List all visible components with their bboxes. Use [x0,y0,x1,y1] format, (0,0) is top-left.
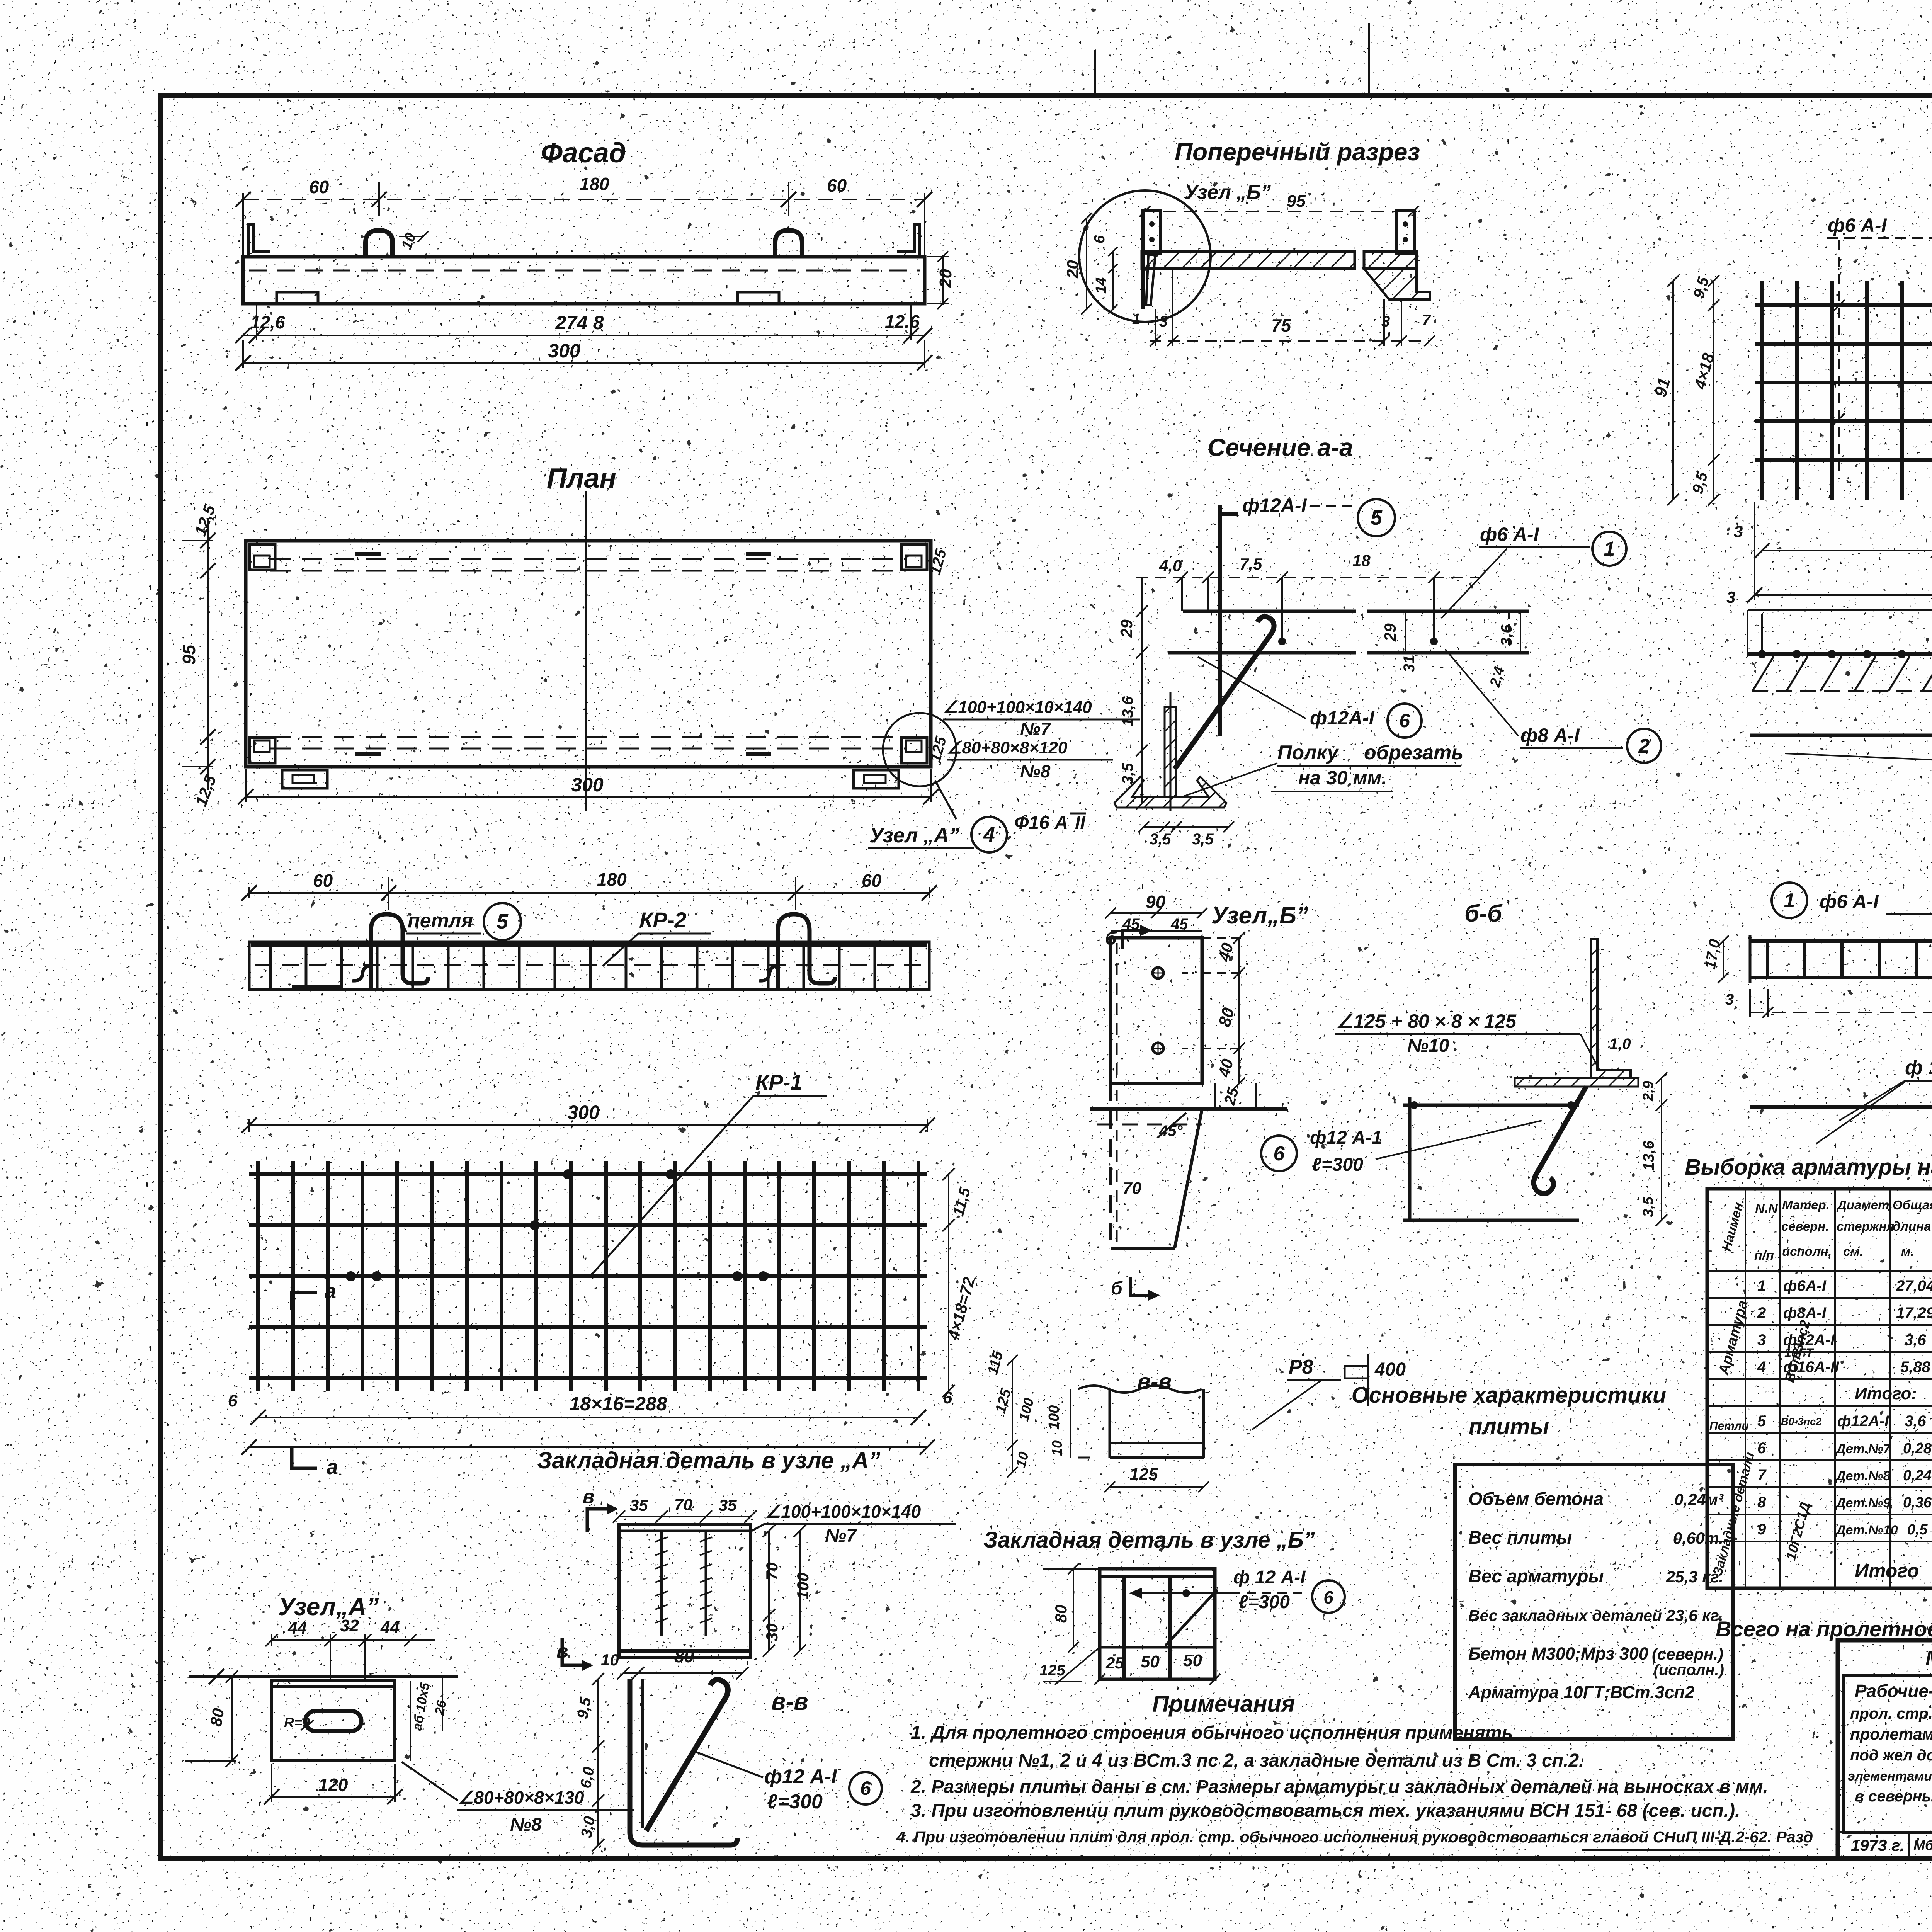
svg-text:ф8 А-I: ф8 А-I [1520,724,1580,746]
svg-text:12.6: 12.6 [885,311,920,332]
svg-text:100: 100 [1046,1405,1062,1430]
title block left: work drawings description [1838,1676,1932,1858]
v-v left dim chain 9.5/6.0/3.0 [574,1673,604,1851]
svg-text:ф12 А-1: ф12 А-1 [1310,1128,1382,1148]
uzel B section marker b bottom [1111,1277,1160,1301]
svg-text:6: 6 [860,1777,871,1799]
svg-text:300: 300 [548,340,580,362]
KR-1 left dim chain 9.5/91/4x18/9.5 [1651,275,1719,505]
svg-text:12,6: 12,6 [250,312,285,332]
svg-text:Объем бетона: Объем бетона [1468,1488,1604,1509]
svg-text:Диамет.: Диамет. [1836,1198,1893,1212]
label petlya with callout 5 [403,903,521,940]
uzel B callout circle [1079,190,1211,322]
detail A dims 35/70/35 [613,1495,757,1523]
label f12A-I callout 5 [1242,495,1395,536]
label KR-1 with leader [591,1070,827,1275]
facade embedded plate left [277,292,318,304]
sechenie vertical bar 5 [1220,505,1238,736]
svg-text:(северн.): (северн.) [1652,1645,1723,1663]
title: Osnovnye kharakteristiki plity [1352,1383,1667,1439]
svg-text:120: 120 [318,1775,348,1795]
title: v-v small [1137,1369,1172,1394]
KR-2 label f6A-I callout 1 left [1772,883,1932,949]
svg-text:Узел: Узел [869,824,918,847]
label f8A-I callout 2 [1445,649,1661,763]
note polku obrezat [1182,742,1463,797]
svg-text:б: б [1111,1278,1123,1299]
sechenie top dim 4.0/7.5/18 [1136,551,1488,641]
v-v broken plate view [1046,1386,1209,1492]
svg-text:Закладная деталь в узле „Б”: Закладная деталь в узле „Б” [983,1527,1315,1553]
KR-1 label f6A-I callout 1 [1827,214,1932,479]
svg-text:в: в [556,1640,568,1662]
svg-text:Вес закладных деталей: Вес закладных деталей [1468,1607,1662,1624]
svg-text:в-в: в-в [771,1689,808,1715]
svg-text:ℓ=300: ℓ=300 [1238,1592,1290,1612]
plan section cut line a-a vertical [585,491,587,811]
svg-text:90: 90 [1146,892,1166,912]
svg-text:ф6 А-I: ф6 А-I [1828,214,1887,236]
svg-text:обрезать: обрезать [1364,742,1463,764]
detail A plate with anchors [619,1524,750,1658]
svg-text:„А”: „А” [923,824,959,847]
svg-text:3: 3 [1725,991,1734,1008]
svg-text:35: 35 [630,1496,648,1514]
svg-text:7,5: 7,5 [1240,555,1262,573]
svg-text:6: 6 [1092,235,1108,243]
svg-text:3,5: 3,5 [1150,831,1171,848]
svg-text:2. Размеры плиты даны в см.: 2. Размеры плиты даны в см. Размеры арма… [910,1777,1768,1797]
svg-text:3,6: 3,6 [1905,1413,1926,1430]
svg-text:95: 95 [179,644,199,665]
svg-text:125: 125 [1129,1465,1158,1484]
view title: Sechenie a-a [1207,434,1353,461]
svg-text:2,9: 2,9 [1640,1081,1656,1102]
plan hidden dashed lines bottom [270,737,906,748]
transverse left dims 20/14/6 [1063,213,1117,315]
characteristics box [1455,1464,1733,1739]
svg-text:Узел: Узел [278,1593,336,1621]
title: v-v section [771,1689,808,1715]
svg-text:№10: №10 [1407,1036,1449,1056]
uzel B plan plate [1111,938,1202,1083]
sechenie label f12A-I callout 6 [1198,657,1422,738]
zakladnaya B plate [1100,1569,1215,1679]
plan outside plate bottom-right [854,770,899,788]
label: Uzel B small [1184,181,1271,204]
svg-text:№8: №8 [510,1815,542,1835]
svg-text:32: 32 [340,1616,359,1635]
svg-text:100: 100 [794,1573,812,1600]
svg-text:5: 5 [497,910,509,933]
svg-text:Ф16 А: Ф16 А [1014,813,1068,833]
svg-text:∠100+100×10×140: ∠100+100×10×140 [943,698,1092,717]
svg-text:10: 10 [1049,1440,1065,1456]
svg-text:Полку: Полку [1277,742,1340,764]
svg-text:∠80+80×8×130: ∠80+80×8×130 [458,1787,584,1808]
v-v label f12 A-I l=300 callout 6 [692,1750,882,1813]
svg-text:Выборка арматуры на 1 плиту: Выборка арматуры на 1 плиту [1685,1155,1932,1180]
b-b rebar frame with hook [1403,1087,1586,1221]
svg-text:3: 3 [1726,588,1735,606]
svg-text:Дет.№7: Дет.№7 [1835,1442,1891,1456]
svg-text:3: 3 [1757,1332,1766,1349]
label R8 400 [1252,1354,1406,1430]
svg-text:13,6: 13,6 [1640,1140,1657,1171]
svg-text:6: 6 [1274,1143,1285,1165]
sechenie bottom dims 3.5 3.5 [1138,821,1234,848]
KR-1 mesh grid [1755,281,1932,500]
svg-text:4. При изготовлении плит для: 4. При изготовлении плит для прол. стр. … [896,1828,1813,1846]
uzel A slab reference line [189,1669,458,1684]
facade top dimension line 60/180/60 [235,174,932,257]
svg-text:а: а [327,1456,338,1479]
mesh top dimension 300 [241,1102,935,1133]
svg-text:0,5: 0,5 [1907,1522,1928,1538]
strip view top dimension 60/180/60 [241,869,937,910]
svg-text:3: 3 [1159,313,1168,330]
svg-text:№8: №8 [1020,761,1051,781]
svg-text:Дет.№8: Дет.№8 [1835,1469,1891,1483]
svg-text:„Б”: „Б” [1267,902,1308,929]
svg-text:Фасад: Фасад [541,138,626,168]
uzel A top dims 44/32/44 [265,1616,435,1681]
svg-text:70: 70 [674,1495,692,1514]
svg-text:70: 70 [763,1562,781,1580]
svg-text:6: 6 [1323,1587,1333,1607]
view title: Poperechny razrez [1175,138,1420,166]
svg-text:∠100+100×10×140: ∠100+100×10×140 [765,1502,921,1522]
svg-text:2: 2 [1757,1304,1766,1321]
plan label angle N8 [947,738,1113,781]
svg-text:плиты: плиты [1469,1414,1549,1439]
svg-text:14: 14 [1093,277,1109,294]
svg-text:КР-1: КР-1 [755,1070,803,1094]
svg-text:5,88: 5,88 [1900,1359,1931,1376]
svg-text:10ГТ: 10ГТ [1784,1346,1814,1360]
svg-text:1. Для пролетного строения: 1. Для пролетного строения обычного испо… [911,1723,1513,1743]
svg-text:3,6: 3,6 [1905,1332,1926,1349]
mesh right dim chain 11.5 / 4x18=72 [942,1168,1007,1397]
svg-text:в северных районах: в северных районах [1855,1788,1932,1805]
svg-text:80: 80 [674,1646,694,1666]
facade lifting loop left [366,230,393,257]
scan speckle noise [0,0,0,0]
plan corner plate top-right [901,544,927,570]
mesh section marker a bottom [292,1447,338,1479]
svg-text:Итого:: Итого: [1855,1384,1917,1403]
svg-text:50: 50 [1183,1651,1202,1670]
detail A label angle 100x100x10x140 N7 [752,1502,956,1546]
svg-text:95: 95 [1287,192,1306,211]
title: Uzel A [278,1593,379,1621]
zakladnaya B dims 25/50/50 and 80/125 [1039,1563,1220,1685]
svg-text:1: 1 [1604,538,1615,560]
svg-text:ф12А-I: ф12А-I [1837,1413,1889,1430]
svg-text:3,5: 3,5 [1640,1196,1656,1217]
KR-1 bottom dim 18x16=288 / 294 [1734,502,1932,603]
transverse dim 95 top [1139,192,1419,217]
svg-text:125: 125 [1039,1662,1065,1679]
svg-text:20: 20 [1063,260,1082,279]
svg-text:9: 9 [1757,1521,1766,1538]
right small dim chain 125/100/10 [992,1355,1037,1478]
KR-2 ladder strip [1750,935,1932,983]
svg-text:4,0: 4,0 [1159,556,1182,575]
view title: Plan [547,463,616,494]
svg-text:элементами для использования: элементами для использования [1848,1769,1932,1784]
facade lifting loop right [775,230,802,257]
svg-text:„Б”: „Б” [1236,181,1271,204]
title block ministry banner [1925,1647,1932,1670]
svg-text:0,28: 0,28 [1903,1440,1932,1457]
svg-text:ф 12 А-I: ф 12 А-I [1233,1567,1306,1588]
KR-2 left dim 17.0 [1702,935,1729,983]
svg-text:80: 80 [1052,1605,1070,1623]
svg-text:80: 80 [207,1707,228,1728]
svg-text:1: 1 [1132,311,1140,327]
svg-text:5: 5 [1757,1413,1766,1430]
plan bottom dimension 300 [238,769,939,804]
svg-text:29: 29 [1117,619,1136,638]
svg-text:План: План [547,463,616,494]
svg-text:4: 4 [1757,1359,1766,1376]
KR-2 bottom dim 18x16 [1725,986,1932,1018]
transverse bottom dims 3/75/3/7 [1132,269,1435,346]
transverse section slab [1142,211,1430,309]
svg-text:Министерство транспортного с: Министерство транспортного строительство… [1925,1647,1932,1670]
plan label angle N7 [943,698,1140,739]
svg-text:II: II [1075,813,1086,833]
svg-text:Рабочие-чертежи: Рабочие-чертежи [1855,1681,1932,1701]
svg-text:ф6А-I: ф6А-I [1783,1277,1827,1294]
svg-text:Р8: Р8 [1289,1356,1313,1378]
svg-text:∠80+80×8×120: ∠80+80×8×120 [947,738,1068,757]
svg-text:10: 10 [601,1651,619,1669]
svg-text:№7: №7 [825,1526,857,1546]
svg-text:25: 25 [1105,1654,1124,1672]
title: Zakladnaya detal v uzle A [537,1447,880,1473]
label KR-2 on strip [603,908,711,966]
uzel A label angle 80x80x8x130 N8 [402,1762,634,1835]
svg-text:Дет.№10: Дет.№10 [1835,1523,1898,1537]
svg-text:в: в [583,1486,594,1507]
svg-text:5: 5 [1371,506,1383,529]
title: Primechaniya [1152,1691,1295,1717]
facade embedded plate right [738,292,779,304]
svg-text:2: 2 [1638,735,1650,757]
svg-text:ф 16 А- II ℓ=2940: ф 16 А- II ℓ=2940 [1905,1056,1932,1079]
svg-text:1973 г.: 1973 г. [1851,1836,1905,1854]
svg-text:26: 26 [432,1699,449,1716]
svg-text:180: 180 [597,869,627,889]
svg-text:3: 3 [1734,522,1743,541]
svg-text:В0-3пс2: В0-3пс2 [1781,1416,1821,1427]
facade dimension line 300 [235,340,932,371]
svg-text:исполн.: исполн. [1782,1244,1832,1259]
svg-text:180: 180 [580,174,609,194]
svg-text:в-в: в-в [1137,1369,1172,1394]
svg-text:7: 7 [1422,312,1431,329]
svg-text:0,60т.: 0,60т. [1673,1529,1723,1547]
KR-1 side elevation beam [1726,585,1932,658]
svg-text:274 8: 274 8 [555,312,604,333]
facade dimension line 12.6/274.8/12.6 [235,304,932,343]
title: Uzel B [1211,902,1308,929]
svg-text:20: 20 [936,269,955,288]
svg-text:4: 4 [983,823,995,846]
svg-text:Основные характеристики: Основные характеристики [1352,1383,1667,1408]
mesh bottom dimension 18x16=288 [228,1388,952,1455]
svg-text:400: 400 [1374,1359,1406,1380]
svg-text:60: 60 [313,871,333,891]
b-b right dim chain 2.9/13.6/3.5 [1640,1072,1667,1226]
view title: Fasad [541,138,626,168]
svg-text:Вес плиты: Вес плиты [1468,1527,1572,1548]
sechenie right dims 29/31/36/2.4 [1381,611,1520,689]
svg-text:27,04: 27,04 [1896,1277,1932,1294]
svg-text:0,24м³: 0,24м³ [1674,1490,1724,1509]
svg-text:3: 3 [1381,313,1390,330]
svg-text:длина: длина [1893,1219,1931,1233]
svg-text:ф6 А-I: ф6 А-I [1820,891,1879,912]
svg-text:44: 44 [287,1619,307,1638]
title block outer [1838,1640,1932,1858]
plan hidden dashed lines top [270,559,906,571]
uzel A bottom dim 120 [264,1764,403,1804]
facade slab body [243,225,925,304]
detail A right dims 70/100/30 [763,1525,812,1657]
svg-text:Итого: Итого [1855,1560,1919,1582]
svg-text:Примечания: Примечания [1152,1691,1295,1717]
svg-text:29: 29 [1381,623,1399,642]
svg-text:31: 31 [1401,655,1418,673]
svg-text:300: 300 [567,1102,600,1123]
svg-text:ф6 А-I: ф6 А-I [1480,524,1539,545]
svg-text:18: 18 [1352,551,1371,570]
svg-text:Всего на пролетное строение: Всего на пролетное строение плит ПУ-7 шт… [1716,1617,1932,1641]
svg-text:75: 75 [1271,315,1292,335]
svg-text:44: 44 [380,1618,400,1637]
svg-text:45: 45 [1170,916,1188,933]
svg-text:Дет.№9: Дет.№9 [1835,1496,1891,1510]
svg-text:R=9: R=9 [284,1714,310,1730]
plan outside plate bottom-left [282,770,327,788]
svg-text:прол. стр. с ездой понизу: прол. стр. с ездой понизу [1850,1705,1932,1722]
plan corner plate bottom-right [901,738,927,763]
svg-text:60: 60 [827,175,847,196]
svg-text:Сечение а-а: Сечение а-а [1207,434,1353,461]
svg-text:Вес арматуры: Вес арматуры [1468,1566,1604,1586]
KR-2 bottom bar line [1750,1082,1932,1144]
svg-text:∠125 + 80 × 8 × 125: ∠125 + 80 × 8 × 125 [1336,1010,1517,1032]
svg-text:Узел: Узел [1211,902,1267,929]
svg-text:50: 50 [1141,1652,1160,1671]
svg-text:Арматура 10ГТ;ВСт.3сп2: Арматура 10ГТ;ВСт.3сп2 [1468,1682,1694,1702]
svg-text:13,6: 13,6 [1119,696,1136,726]
detail A section marker v top [583,1486,618,1532]
KR-1 elevation hatch strokes [1752,656,1932,691]
svg-text:ф12 А-I: ф12 А-I [764,1765,837,1788]
table title: Vyborka armatury na 1 plitu [1685,1155,1932,1180]
b-b angle label 125x80x8x125 N10 [1335,1010,1600,1070]
caption: Vsego na proletnoye stroyeniye plit PU-7 sht [1716,1617,1932,1641]
svg-text:п/п: п/п [1754,1248,1774,1263]
svg-text:6: 6 [228,1391,238,1410]
zakladnaya B label f12A-I l=300 callout 6 [1129,1567,1345,1613]
svg-text:б-б: б-б [1464,900,1503,927]
KR-1 mesh grid [249,1161,927,1391]
svg-text:КР-2: КР-2 [639,908,687,932]
svg-text:Узел: Узел [1184,181,1231,204]
svg-text:17,29: 17,29 [1896,1304,1932,1321]
plan left dimension chain 12.5/95/12.5 [179,502,220,809]
svg-text:23,6 кг.: 23,6 кг. [1666,1606,1723,1624]
uzel B lower part with 45 deg cut [1090,1083,1287,1248]
svg-text:3,5: 3,5 [1119,763,1136,784]
svg-text:ф12А-I: ф12А-I [1242,495,1307,516]
svg-text:3. При изготовлении плит рук: 3. При изготовлении плит руководствовать… [911,1801,1740,1821]
title: Zakladnaya detal v uzle B [983,1527,1315,1553]
svg-text:№7: №7 [1020,719,1051,739]
svg-text:на 30 мм.: на 30 мм. [1298,767,1387,789]
notes text lines [896,1723,1813,1850]
svg-text:3,5: 3,5 [1192,831,1214,848]
plan slab outline [246,541,931,767]
svg-text:стержни №1, 2 и 4 из ВСт.3: стержни №1, 2 и 4 из ВСт.3 пс 2, а закла… [929,1750,1584,1771]
svg-text:ф8А-I: ф8А-I [1783,1304,1827,1321]
svg-text:1: 1 [1757,1277,1766,1294]
mesh spot welds dots [346,1169,768,1281]
svg-text:Матер.: Матер. [1782,1198,1830,1212]
svg-text:6: 6 [1757,1440,1766,1457]
svg-text:ℓ=300: ℓ=300 [1312,1155,1363,1175]
svg-text:3,6: 3,6 [1498,624,1515,646]
svg-text:Закладная деталь в узле „А”: Закладная деталь в узле „А” [537,1447,880,1473]
mesh section marker a top [292,1280,336,1310]
detail A section marker v bottom [556,1638,593,1671]
uzel A right dims [410,1677,449,1761]
svg-text:петля: петля [408,910,473,932]
svg-text:а: а [325,1280,336,1303]
label f6A-I callout 1 [1441,524,1626,618]
sechenie T-profile hatched [1114,692,1226,811]
svg-text:45: 45 [1122,916,1140,933]
v-v dims 10/80 [601,1646,748,1679]
uzel A left dim 80 [185,1670,238,1767]
svg-text:Петли: Петли [1709,1420,1749,1432]
svg-text:северн.: северн. [1781,1219,1829,1233]
KR-2 label f16A-II l=2940 callout 3 [1839,1056,1932,1121]
svg-text:60: 60 [309,177,329,197]
plan label Uzel A with callout 4 [868,713,1086,852]
svg-text:70: 70 [1122,1179,1141,1198]
svg-text:N.N: N.N [1755,1202,1778,1216]
v-v angle profile with hooked bar [630,1679,737,1845]
sechenie hook bar 6 [1175,617,1274,769]
svg-text:0,24: 0,24 [1903,1468,1932,1484]
uzel A plate with oval hole [272,1681,395,1761]
bar f6A-I l=2940 callout 1 [1750,735,1932,785]
svg-text:Общая: Общая [1893,1198,1932,1212]
uzel B section marker b top [1105,925,1152,949]
plan corner plate bottom-left [250,738,275,763]
plan weld dashes [355,554,771,754]
svg-text:60: 60 [862,871,882,891]
svg-text:1: 1 [1784,889,1795,912]
vyborka table [1707,1189,1932,1588]
